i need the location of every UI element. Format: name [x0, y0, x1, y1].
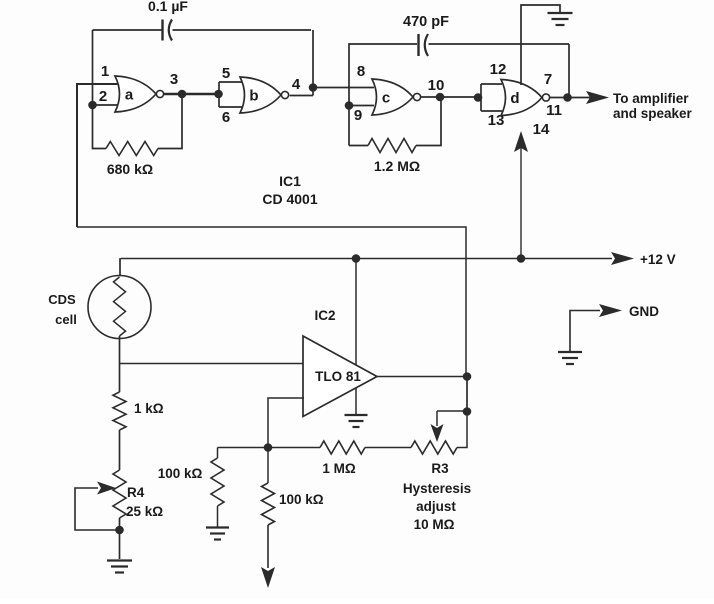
- wire gate-a output to gate-b input: [164, 93, 219, 96]
- ground below R4: [107, 561, 132, 573]
- svg-text:b: b: [249, 88, 258, 105]
- arrow R4 wiper: [97, 482, 116, 495]
- node rail op-amp branch: [352, 254, 361, 263]
- resistor 1k: [113, 392, 126, 430]
- resistor R1 680k feedback: [93, 94, 183, 156]
- svg-text:R4: R4: [127, 485, 145, 500]
- node gate-b input junction: [214, 90, 223, 99]
- svg-text:2: 2: [99, 88, 107, 105]
- svg-text:Hysteresis: Hysteresis: [403, 481, 471, 496]
- resistor 1M: [320, 441, 365, 454]
- node gate-d input junction: [474, 93, 483, 102]
- svg-text:25 kΩ: 25 kΩ: [126, 504, 163, 519]
- label 680 kOhm: [107, 161, 153, 177]
- label pin 10: [428, 77, 445, 94]
- label Hysteresis: [403, 481, 471, 496]
- wire comparator output to pin1 (horizontal run): [77, 227, 466, 377]
- svg-text:14: 14: [533, 121, 550, 138]
- svg-text:10 MΩ: 10 MΩ: [414, 517, 455, 532]
- wire 470pF feedback left vertical: [349, 44, 417, 146]
- arrow +12V: [611, 252, 634, 265]
- wire pin7 to ground (top): [521, 5, 560, 85]
- label GND: [629, 304, 659, 319]
- node summing junction: [264, 443, 273, 452]
- node gate-a pin2 junction: [88, 101, 97, 110]
- label R4: [127, 485, 145, 500]
- svg-text:+12 V: +12 V: [640, 252, 676, 267]
- label R3: [431, 461, 449, 476]
- capacitor C1 0.1uF: [163, 20, 312, 41]
- label adjust: [416, 499, 456, 514]
- potentiometer R3 10M: [411, 441, 457, 454]
- label pin 3: [170, 71, 178, 88]
- node pin4 junction: [309, 83, 318, 92]
- wire 1k to R4: [119, 430, 121, 470]
- svg-text:TLO 81: TLO 81: [315, 369, 361, 384]
- label 0.1uF value: [148, 0, 188, 14]
- ground op-amp: [345, 415, 368, 427]
- svg-text:1 MΩ: 1 MΩ: [322, 461, 356, 476]
- label 470 pF value: [403, 14, 449, 30]
- wire gate-d input tie bar: [481, 84, 502, 111]
- op-amp U2 TLO81: [303, 336, 377, 417]
- svg-text:CDS: CDS: [48, 292, 76, 307]
- svg-text:8: 8: [357, 63, 365, 80]
- node R3 wiper junction: [463, 407, 472, 416]
- label pin 6: [222, 109, 230, 126]
- svg-text:R3: R3: [431, 461, 449, 476]
- svg-text:c: c: [382, 90, 390, 107]
- wire R3 wiper: [437, 411, 467, 426]
- svg-text:d: d: [510, 90, 519, 107]
- label pin 1: [101, 63, 109, 80]
- svg-text:5: 5: [222, 65, 230, 82]
- wire pin4 node vertical: [312, 30, 314, 96]
- wire op-amp non-inverting input: [268, 398, 304, 448]
- op-amp... NOR gate U1a: [115, 76, 164, 112]
- NOR gate U1d: [501, 80, 550, 116]
- svg-text:a: a: [125, 87, 134, 104]
- wire pin14 from +12V rail: [520, 134, 522, 259]
- label pin 12: [490, 61, 507, 78]
- label 25 kOhm: [126, 504, 163, 519]
- svg-text:11: 11: [546, 102, 562, 119]
- svg-text:12: 12: [490, 61, 507, 78]
- wire GND stub: [570, 311, 600, 352]
- svg-text:and speaker: and speaker: [613, 106, 693, 121]
- photocell CDS cell: [88, 276, 151, 339]
- node op-amp output junction: [463, 372, 472, 381]
- label 1 MOhm: [322, 461, 356, 476]
- wire inverting network run: [218, 412, 468, 448]
- svg-text:6: 6: [222, 109, 230, 126]
- label CD 4001: [262, 191, 317, 207]
- svg-text:0.1 µF: 0.1 µF: [148, 0, 188, 14]
- node pin3 junction: [178, 90, 187, 99]
- svg-text:470 pF: 470 pF: [403, 14, 449, 30]
- arrow GND: [599, 304, 622, 317]
- potentiometer R4 25k: [113, 470, 126, 559]
- arrow to amplifier: [586, 91, 609, 104]
- wire output down to R3 wiper node: [466, 377, 468, 413]
- label cell: [55, 312, 77, 327]
- resistor 100k right: [262, 448, 275, 569]
- svg-text:To amplifier: To amplifier: [613, 91, 689, 106]
- label pin 9: [354, 107, 362, 124]
- label pin 2: [99, 88, 107, 105]
- label and speaker: [613, 106, 693, 121]
- resistor 100k left: [211, 448, 224, 528]
- label pin 7: [544, 71, 552, 88]
- wire gate-b input tie bar: [219, 82, 242, 107]
- label pin 4: [292, 76, 301, 93]
- wire rail to CDS cell: [120, 259, 121, 276]
- svg-text:cell: cell: [55, 312, 77, 327]
- wire gate-d output: [550, 97, 590, 99]
- ground right (GND symbol): [558, 352, 582, 364]
- arrow pin14 up: [514, 131, 528, 152]
- wire to op-amp inverting input: [120, 363, 305, 365]
- node R4 bottom junction: [115, 526, 124, 535]
- svg-text:10: 10: [428, 77, 445, 94]
- label pin 13: [488, 112, 505, 129]
- wire R4 wiper loop: [75, 488, 120, 530]
- wire gate-b output to pin4 node: [290, 95, 313, 97]
- wire pin4 to gate-c pin8: [313, 87, 374, 89]
- svg-text:CD 4001: CD 4001: [262, 191, 317, 207]
- label pin 11: [546, 102, 562, 119]
- NOR gate U1b: [240, 77, 289, 113]
- label pin 8: [357, 63, 365, 80]
- wire 470pF right vertical to gate-d output: [568, 44, 570, 98]
- label +12 V: [640, 252, 676, 267]
- label 100 kOhm right: [279, 492, 324, 507]
- ground top-right (pin 7): [548, 13, 573, 25]
- wire gate-c output to gate-d input: [421, 96, 481, 98]
- ground below 100k: [206, 528, 229, 540]
- arrow output to next stage: [261, 567, 275, 588]
- svg-text:3: 3: [170, 71, 178, 88]
- wire gate-c pin9 stub: [349, 105, 374, 107]
- node gate-c pin9 junction: [345, 101, 354, 110]
- wire op-amp output: [377, 376, 467, 378]
- node rail pin14 branch: [517, 254, 526, 263]
- label To amplifier: [613, 91, 689, 106]
- svg-text:9: 9: [354, 107, 362, 124]
- wire +12V rail: [121, 258, 612, 260]
- svg-text:680 kΩ: 680 kΩ: [107, 161, 153, 177]
- wire op-amp V- to ground: [355, 388, 357, 414]
- wire CDS bottom to divider: [119, 336, 121, 392]
- svg-text:1: 1: [101, 63, 109, 80]
- capacitor C2 470pF: [419, 34, 570, 56]
- label 1 kOhm: [134, 401, 164, 416]
- wire op-amp V+ supply: [355, 259, 357, 367]
- resistor R2 1.2M feedback: [349, 97, 441, 153]
- arrow R3 wiper down: [431, 424, 444, 442]
- NOR gate U1c: [372, 79, 421, 115]
- label IC1: [279, 173, 301, 189]
- svg-text:100 kΩ: 100 kΩ: [279, 492, 324, 507]
- svg-text:1 kΩ: 1 kΩ: [134, 401, 164, 416]
- label 10 MOhm: [414, 517, 455, 532]
- label 1.2 MOhm: [374, 158, 420, 174]
- svg-text:adjust: adjust: [416, 499, 456, 514]
- label pin 14: [533, 121, 550, 138]
- wire op-amp output to gate-a pin 1 (left vertical): [77, 84, 119, 227]
- svg-text:IC2: IC2: [314, 308, 335, 323]
- svg-text:100 kΩ: 100 kΩ: [158, 466, 203, 481]
- node gate-d output junction: [563, 93, 572, 102]
- wire 0.1uF feedback left segment (pin 2 node up and across): [93, 30, 163, 105]
- node pin10 junction: [436, 93, 445, 102]
- wire gate-a pin2 stub: [93, 104, 120, 106]
- svg-text:7: 7: [544, 71, 552, 88]
- label IC2: [314, 308, 335, 323]
- svg-text:GND: GND: [629, 304, 659, 319]
- svg-text:IC1: IC1: [279, 173, 301, 189]
- label TLO 81: [315, 369, 361, 384]
- label 100 kOhm left: [158, 466, 203, 481]
- label CDS: [48, 292, 76, 307]
- label pin 5: [222, 65, 230, 82]
- svg-text:1.2 MΩ: 1.2 MΩ: [374, 158, 420, 174]
- svg-text:4: 4: [292, 76, 301, 93]
